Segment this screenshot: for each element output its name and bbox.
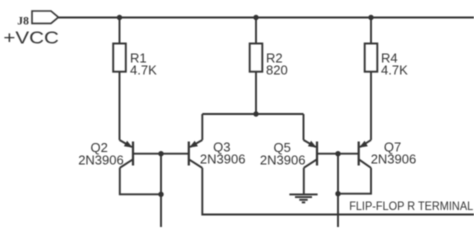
wire Q5 emitter up (303, 114, 305, 140)
svg-text:J8: J8 (17, 14, 29, 27)
connector J8 (17, 11, 58, 27)
wire left node down (FLIP-FLOP S) (160, 154, 162, 227)
wire Q7 collector loop (338, 168, 371, 194)
label R2 820 (266, 50, 288, 77)
ground (289, 194, 317, 202)
resistor R1 (113, 18, 126, 72)
wire R1 to Q2 emitter (119, 72, 121, 140)
wire Q5 base to Q7 base (317, 153, 359, 155)
wire emitter rail Q3-R2-Q5 (202, 113, 303, 115)
junction dot right collector node (335, 191, 340, 196)
transistor Q2 (120, 140, 134, 168)
svg-text:2N3906: 2N3906 (260, 152, 306, 167)
label Q2 2N3906 (78, 140, 124, 167)
label Q7 2N3906 (371, 140, 417, 167)
wire Q2 base to Q3 base (133, 153, 189, 155)
wire Q2 collector (120, 168, 161, 195)
label R1 4.7K (130, 50, 157, 77)
junction dot VCC/R2 (253, 15, 258, 20)
svg-text:4.7K: 4.7K (130, 62, 157, 77)
svg-text:FLIP-FLOP R TERMINAL: FLIP-FLOP R TERMINAL (349, 200, 473, 213)
svg-text:+VCC: +VCC (3, 28, 59, 48)
junction dot R2/emitter rail (253, 111, 258, 116)
junction dot base node left (158, 151, 163, 156)
transistor Q7 (359, 140, 371, 168)
junction dot base node right (335, 151, 340, 156)
label Q3 2N3906 (200, 140, 246, 167)
resistor R2 (250, 18, 263, 72)
svg-text:820: 820 (266, 62, 288, 77)
transistor Q3 (189, 140, 203, 168)
svg-text:2N3906: 2N3906 (78, 152, 124, 167)
wire Q3 emitter up (201, 114, 203, 140)
label Q5 2N3906 (260, 140, 306, 167)
junction dot left collector node (158, 192, 163, 197)
junction dot VCC/R1 (117, 15, 122, 20)
wire R4 to Q7 emitter (370, 72, 372, 140)
label R4 4.7K (381, 50, 408, 77)
svg-text:2N3906: 2N3906 (371, 152, 417, 167)
wire Q5 collector to ground (303, 168, 305, 194)
svg-text:2N3906: 2N3906 (200, 152, 246, 167)
wire VCC rail (58, 16, 474, 18)
transistor Q5 (304, 140, 318, 168)
resistor R4 (365, 18, 378, 72)
junction dot VCC/R4 (368, 15, 373, 20)
wire right node down (crosses bottom rail) (337, 154, 339, 227)
wire R2 bottom lead (255, 72, 257, 114)
svg-text:4.7K: 4.7K (381, 62, 408, 77)
wire Q3 collector down and bottom rail (202, 168, 474, 215)
